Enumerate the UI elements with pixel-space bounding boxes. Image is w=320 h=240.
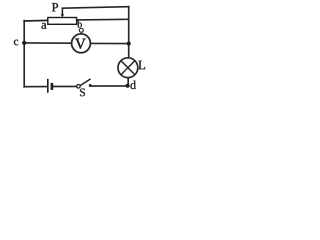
switch right contact xyxy=(89,84,92,87)
voltmeter top terminal mark xyxy=(79,28,83,32)
wire left vertical xyxy=(23,21,25,87)
switch lever xyxy=(80,79,91,86)
battery short plate xyxy=(51,83,54,90)
wire top xyxy=(62,7,128,9)
wire voltmeter right xyxy=(90,42,128,44)
wire rheostat b to right vertical xyxy=(76,18,129,21)
label P xyxy=(52,3,58,11)
junction dot node c xyxy=(22,41,26,45)
wire voltmeter left xyxy=(24,42,72,44)
junction dot node d xyxy=(126,84,130,88)
rheostat slider arrowhead xyxy=(61,14,64,17)
label b xyxy=(77,20,82,27)
wire bottom left corner to battery xyxy=(24,86,47,88)
label c xyxy=(14,40,18,46)
battery long plate xyxy=(47,79,49,93)
wire battery to switch xyxy=(53,85,77,87)
label V xyxy=(75,39,86,49)
switch pivot contact xyxy=(77,85,81,89)
label L xyxy=(138,61,145,69)
wire right vertical lower xyxy=(127,77,129,86)
lamp L circle xyxy=(118,58,138,78)
wire switch to bottom-right corner xyxy=(90,85,128,87)
label S xyxy=(80,89,85,97)
rheostat slider arm xyxy=(61,8,63,14)
label a xyxy=(42,23,47,29)
voltmeter circle xyxy=(72,34,91,53)
rheostat P body xyxy=(48,18,77,25)
wire right vertical upper xyxy=(128,7,130,59)
lamp X stroke 2 xyxy=(121,61,135,75)
lamp X stroke 1 xyxy=(121,61,135,75)
junction dot voltmeter right node xyxy=(127,42,131,46)
wire node c to rheostat a xyxy=(24,19,48,22)
label d xyxy=(131,81,136,89)
